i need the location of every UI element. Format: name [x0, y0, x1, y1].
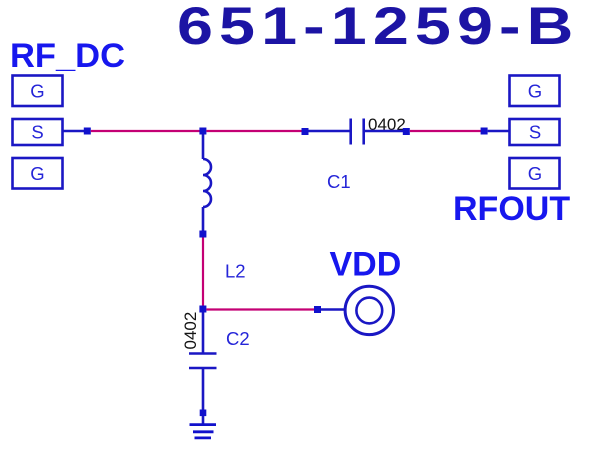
node A junction square [84, 128, 91, 135]
node B junction square (inductor tap) [199, 128, 206, 135]
node G junction square [199, 306, 206, 313]
node C junction square [302, 128, 309, 135]
wire: C1 right plate to node D (blue) [364, 130, 403, 133]
wire: node F down to node G (net VDD, magenta) [202, 238, 204, 307]
wire: node B to node C (magenta) [206, 130, 302, 132]
svg-text:L2: L2 [225, 261, 246, 282]
svg-text:651-1259-B: 651-1259-B [177, 0, 579, 56]
node E junction square [481, 128, 488, 135]
connector J2 pad S (right middle) [510, 119, 560, 145]
wire: node E to S pad right (blue) [488, 130, 510, 133]
wire: C2 bottom plate to node I (blue) [202, 368, 205, 410]
inductor L2 coil [203, 159, 211, 207]
svg-text:G: G [30, 81, 44, 102]
wire: inductor bottom to node F (blue) [202, 207, 205, 231]
connector J2 pad G (right top) [510, 76, 560, 107]
node I junction square [200, 410, 207, 417]
connector J1 pad S (left middle) [13, 119, 63, 145]
connector J1 pad G (left bottom) [13, 158, 63, 189]
ground [190, 425, 217, 438]
node F junction square [199, 231, 206, 238]
wire: node H to VDD port symbol (blue) [321, 308, 345, 311]
wire: node G down to C2 (blue) [202, 313, 205, 353]
wire: node D to node E (magenta) [410, 130, 481, 132]
svg-text:RFOUT: RFOUT [453, 190, 570, 228]
wire: node I to ground (blue) [202, 416, 205, 424]
svg-text:G: G [528, 163, 542, 184]
svg-text:G: G [30, 163, 44, 184]
wire: node A to node B (net RF_DC, magenta) [91, 130, 200, 132]
wire: node B down to inductor L2 (blue) [202, 134, 205, 159]
svg-text:G: G [528, 81, 542, 102]
wire: node G right toward VDD port (magenta) [206, 308, 314, 310]
capacitor C2 [189, 354, 217, 369]
svg-text:RF_DC: RF_DC [10, 37, 125, 75]
wire: S pad left to node A (blue stub) [63, 130, 86, 133]
capacitor C1 [351, 119, 364, 145]
svg-text:VDD: VDD [330, 246, 402, 284]
node D junction square [403, 128, 410, 135]
svg-text:C2: C2 [226, 328, 250, 349]
svg-text:S: S [529, 122, 541, 143]
svg-text:C1: C1 [327, 171, 351, 192]
connector J2 pad G (right bottom) [510, 158, 560, 189]
connector J1 pad G (left top) [13, 76, 63, 107]
wire: node C to C1 left plate (blue) [309, 130, 351, 133]
svg-text:S: S [31, 122, 43, 143]
power port VDD symbol [345, 286, 393, 334]
node H junction square [314, 306, 321, 313]
svg-text:0402: 0402 [181, 312, 200, 350]
